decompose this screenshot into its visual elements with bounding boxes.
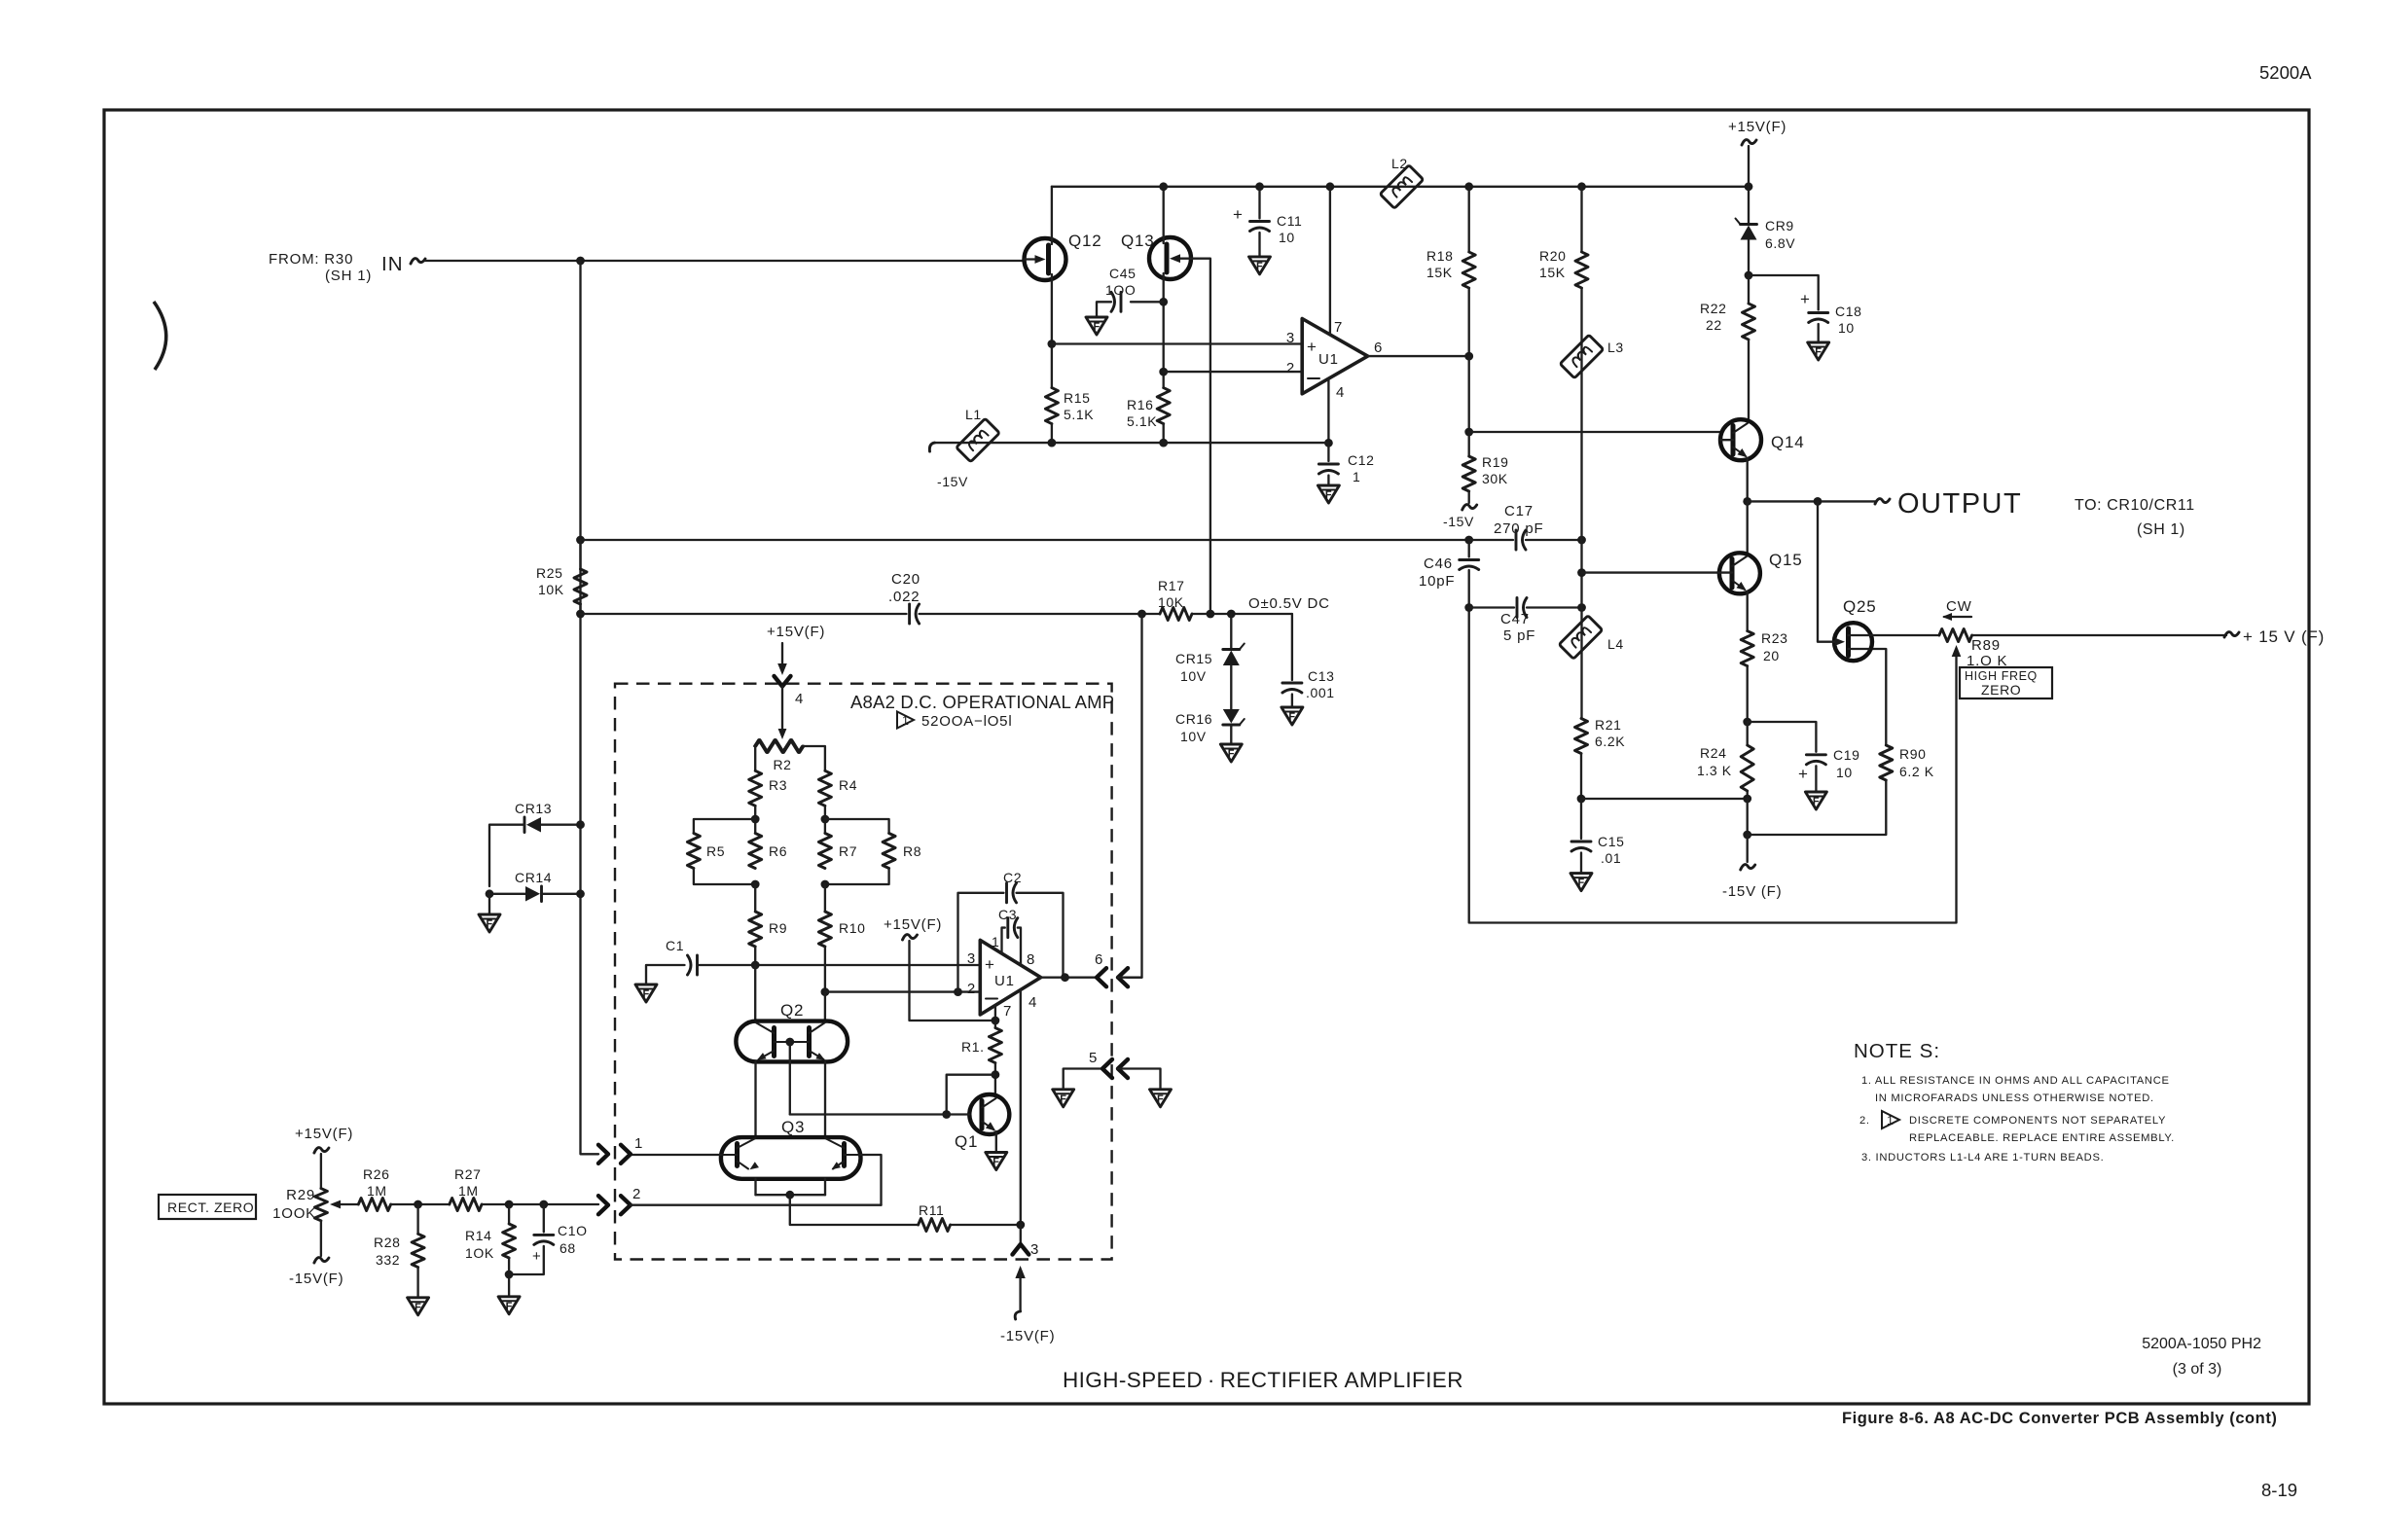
diode CR13 [489, 801, 585, 886]
wire Q3 emitters join [754, 1179, 756, 1195]
resistor R7 [818, 834, 831, 869]
svg-text:.01: .01 [1601, 850, 1621, 866]
svg-text:REPLACEABLE. REPLACE ENTIRE: REPLACEABLE. REPLACE ENTIRE ASSEMBLY. [1909, 1132, 2175, 1144]
svg-text:+: + [985, 955, 995, 974]
diode CR9 6.8V zener [1736, 187, 1796, 275]
node C1/R9 junction [751, 961, 760, 970]
wire C20 line [581, 613, 907, 615]
svg-text:(3 of 3): (3 of 3) [2173, 1361, 2222, 1378]
svg-text:-15V (F): -15V (F) [1722, 883, 1782, 900]
svg-text:-15V: -15V [937, 474, 968, 489]
resistor R21 6.2K [1575, 719, 1588, 754]
wire U1 pin7 / R1 [994, 1006, 996, 1028]
svg-text:F: F [506, 1301, 513, 1312]
transistor Q3 (dual pair) [721, 1118, 861, 1179]
svg-text:CR9: CR9 [1765, 218, 1794, 233]
node R11/pin4 junction [1016, 1221, 1025, 1230]
svg-text:CW: CW [1946, 598, 1972, 615]
svg-text:270 pF: 270 pF [1494, 520, 1544, 537]
svg-text:R5: R5 [706, 843, 725, 859]
node R25 top junction [576, 536, 585, 545]
inductor L3 [1560, 335, 1604, 378]
wire L4 vertical [1580, 608, 1582, 719]
svg-text:R3: R3 [769, 777, 787, 793]
svg-text:L2: L2 [1391, 156, 1408, 171]
capacitor C3 [998, 907, 1021, 964]
wire pin6 feedback vertical [1127, 614, 1142, 978]
wire Q13 source down through R16 [1163, 273, 1165, 388]
capacitor C2 [958, 870, 1064, 992]
svg-text:HIGH FREQ: HIGH FREQ [1965, 669, 2038, 683]
wire Q1 base [790, 1113, 970, 1115]
svg-text:R17: R17 [1158, 578, 1184, 593]
svg-text:R7: R7 [839, 843, 857, 859]
node pin2 junction at R10 [821, 987, 830, 996]
svg-text:7: 7 [1334, 319, 1343, 336]
connector pin 2 fork + mate [598, 1196, 608, 1214]
svg-text:U1: U1 [1318, 351, 1339, 368]
svg-text:(SH 1): (SH 1) [2137, 521, 2185, 538]
node R21 bottom junction [1577, 795, 1586, 804]
node CR9/C18 junction [1745, 271, 1753, 280]
wire R21 bottom to -15V rail [1581, 798, 1748, 800]
svg-text:.001: .001 [1306, 685, 1335, 700]
svg-text:(SH 1): (SH 1) [325, 268, 372, 284]
svg-text:1OOK: 1OOK [272, 1205, 316, 1222]
svg-text:NOTE S:: NOTE S: [1854, 1040, 1940, 1062]
svg-text:5.1K: 5.1K [1064, 407, 1094, 422]
transistor Q1 [955, 1094, 1009, 1151]
svg-text:L3: L3 [1607, 340, 1624, 355]
wire to U1 pin 2 [1164, 371, 1303, 373]
connector pin 5 fork pair with grounds [1053, 1050, 1172, 1107]
wire to C13 [1291, 614, 1293, 680]
svg-text:1M: 1M [458, 1183, 479, 1199]
resistor R23 20 [1741, 631, 1753, 666]
wire U1 pin2 line [825, 990, 980, 992]
svg-text:Q13: Q13 [1121, 232, 1155, 250]
svg-text:6.2K: 6.2K [1595, 734, 1625, 749]
svg-text:5200A-1050 PH2: 5200A-1050 PH2 [2142, 1336, 2261, 1352]
svg-text:F: F [1288, 711, 1295, 723]
wire C46 bottom / feedback loop to R89 wiper [1469, 570, 1957, 923]
power -15V(F) under R24 [1747, 835, 1749, 862]
svg-text:C1: C1 [666, 938, 684, 953]
svg-text:5.1K: 5.1K [1127, 413, 1157, 429]
resistor R6 [749, 834, 762, 869]
svg-text:Q12: Q12 [1068, 232, 1102, 250]
svg-text:C18: C18 [1835, 304, 1861, 319]
svg-text:1: 1 [902, 714, 910, 728]
node R25 bottom junction [576, 610, 585, 619]
svg-text:F: F [1325, 489, 1332, 501]
op-amp U1 (lower) [967, 934, 1041, 1020]
node CR15 junction [1227, 610, 1236, 619]
svg-text:F: F [643, 988, 650, 1000]
connector pin 6 fork [1097, 968, 1106, 986]
svg-text:5: 5 [1089, 1050, 1098, 1066]
svg-text:332: 332 [376, 1252, 400, 1268]
wire Q2 bases to Q1 base line [789, 1042, 791, 1115]
svg-text:-15V: -15V [1443, 514, 1474, 529]
capacitor C19 10 [1748, 722, 1860, 809]
resistor R89 1.0K potentiometer [1872, 634, 1939, 636]
svg-text:R9: R9 [769, 920, 787, 936]
svg-text:F: F [415, 1302, 421, 1313]
svg-text:5200A: 5200A [2259, 62, 2312, 83]
node R4/R7/R8 junction [821, 815, 830, 824]
transistor Q15 [1718, 551, 1803, 593]
transistor Q12 (JFET) [1025, 232, 1102, 280]
svg-text:L4: L4 [1607, 636, 1624, 652]
svg-text:R28: R28 [374, 1235, 400, 1250]
svg-text:CR15: CR15 [1175, 651, 1212, 666]
svg-text:F: F [992, 1157, 999, 1168]
svg-text:4: 4 [1029, 994, 1037, 1011]
svg-text:U1: U1 [994, 973, 1015, 989]
node Q1 base junction [942, 1110, 951, 1119]
node R28 junction [414, 1200, 422, 1209]
svg-text:1: 1 [634, 1135, 643, 1152]
svg-text:2: 2 [1286, 360, 1295, 376]
svg-text:Figure 8-6. A8 AC-DC Converter: Figure 8-6. A8 AC-DC Converter PCB Assem… [1842, 1410, 2277, 1427]
svg-text:HIGH-SPEED · RECTIFIER AMPLIF: HIGH-SPEED · RECTIFIER AMPLIFIER [1063, 1368, 1463, 1392]
dashed box A8A2 assembly [615, 684, 1112, 1260]
stray paren mark [154, 302, 166, 370]
svg-text:R19: R19 [1482, 454, 1508, 470]
resistor R24 1.3K [1747, 722, 1749, 745]
node output junction [1464, 352, 1473, 361]
svg-text:6.2 K: 6.2 K [1899, 764, 1934, 779]
node R14 junction [505, 1200, 514, 1209]
wire U1 pin 7 to +15 rail [1329, 187, 1331, 335]
wire Q12 source down through R15 [1051, 274, 1053, 388]
svg-text:R10: R10 [839, 920, 865, 936]
svg-text:R2: R2 [773, 757, 791, 772]
node C45 junction [1159, 298, 1168, 306]
svg-text:6: 6 [1374, 340, 1383, 356]
wire to U1 pin 3 [1052, 342, 1302, 344]
transistor Q25 (FET) [1834, 597, 1877, 661]
svg-text:R29: R29 [286, 1187, 315, 1203]
node C47 left junction [1464, 603, 1473, 612]
resistor R5 parallel loop [694, 819, 755, 834]
resistor R17 10K [1160, 608, 1192, 621]
svg-text:C20: C20 [891, 571, 920, 588]
svg-text:C17: C17 [1504, 503, 1534, 519]
capacitor C45 100 [1086, 266, 1164, 335]
svg-text:6.8V: 6.8V [1765, 235, 1795, 251]
wire vertical rail below L2 dot [1464, 182, 1473, 191]
svg-text:10V: 10V [1180, 729, 1207, 744]
svg-text:C46: C46 [1424, 555, 1453, 572]
svg-text:TO: CR10/CR11: TO: CR10/CR11 [2075, 497, 2195, 514]
svg-text:10K: 10K [1158, 594, 1184, 610]
svg-text:52OOA−lO5l: 52OOA−lO5l [921, 713, 1012, 730]
node Q14 base junction [1464, 428, 1473, 437]
node R21 branch junction [1743, 795, 1751, 804]
resistor R22 22 [1748, 275, 1750, 304]
svg-text:3: 3 [1030, 1241, 1039, 1258]
resistor R90 6.2K [1880, 745, 1893, 780]
wire left vertical bus to pin 1 [581, 261, 599, 1154]
capacitor C47 5pF [1469, 606, 1514, 608]
svg-text:Q14: Q14 [1771, 433, 1805, 451]
connector pin 3 fork [1020, 1225, 1022, 1244]
svg-text:C15: C15 [1598, 834, 1624, 849]
inductor L2 [1380, 165, 1424, 209]
wiper arrow into R29 [339, 1203, 358, 1205]
svg-text:R15: R15 [1064, 390, 1090, 406]
svg-text:1M: 1M [367, 1183, 387, 1199]
svg-text:15K: 15K [1426, 265, 1453, 280]
svg-text:1. ALL RESISTANCE IN OHMS: 1. ALL RESISTANCE IN OHMS AND ALL CAPACI… [1861, 1075, 2170, 1087]
resistor R19 30K [1468, 432, 1470, 456]
node R1 bottom junction [992, 1070, 1000, 1079]
wire Q13 drain to +15 rail [1163, 187, 1165, 243]
wire Q3 right base via pin 2 riser [861, 1155, 882, 1205]
node Q15 base junction [1577, 568, 1586, 577]
transistor Q13 (JFET, mirrored) [1121, 232, 1191, 279]
transistor Q14 [1720, 419, 1805, 460]
wire input from R30 to Q12 gate [424, 260, 1025, 262]
svg-text:8: 8 [1027, 951, 1035, 968]
svg-text:3. INDUCTORS L1-L4 ARE 1-: 3. INDUCTORS L1-L4 ARE 1-TURN BEADS. [1861, 1152, 2104, 1164]
svg-text:+: + [532, 1248, 542, 1265]
wire to Q15 base [1582, 571, 1719, 573]
resistor R14 10K [508, 1204, 510, 1224]
wire U1 pin 4 down [1327, 378, 1329, 443]
resistor R20 15K [1575, 252, 1588, 288]
svg-text:C47: C47 [1500, 611, 1530, 627]
svg-text:10: 10 [1836, 765, 1853, 780]
svg-text:Q1: Q1 [955, 1132, 978, 1151]
svg-text:68: 68 [559, 1240, 576, 1256]
svg-text:-15V(F): -15V(F) [289, 1271, 343, 1287]
svg-text:R1.: R1. [961, 1039, 985, 1055]
svg-text:1: 1 [1353, 469, 1360, 484]
wire pin4 to R2 wiper [781, 687, 783, 732]
svg-text:CR16: CR16 [1175, 711, 1212, 727]
potentiometer R29 100K [272, 1126, 353, 1287]
diode CR14 [486, 870, 585, 902]
svg-text:7: 7 [1003, 1003, 1012, 1020]
wire R10 junction down to Q2 [824, 992, 826, 1021]
svg-text:+: + [1307, 338, 1317, 356]
svg-text:OUTPUT: OUTPUT [1897, 488, 2022, 519]
inductor L1 [956, 418, 1000, 462]
node rail junctions [1159, 182, 1168, 191]
node C17 left junction [1464, 536, 1473, 545]
svg-text:22: 22 [1706, 317, 1722, 333]
wire Q3 left base to pin 1 [631, 1154, 721, 1156]
wire Q1 emitter to ground [995, 1131, 997, 1153]
svg-text:C12: C12 [1348, 452, 1374, 468]
svg-text:F: F [1813, 796, 1820, 807]
svg-text:C45: C45 [1109, 266, 1136, 281]
svg-text:+15V(F): +15V(F) [1728, 119, 1786, 135]
svg-text:3: 3 [1286, 330, 1295, 346]
note-2 triangle symbol with 1 [897, 712, 914, 729]
svg-text:10K: 10K [538, 582, 564, 597]
wire Q13 gate feedback vertical [1191, 259, 1210, 615]
svg-text:F: F [1228, 748, 1235, 760]
svg-text:R25: R25 [536, 565, 562, 581]
wire emitters to R11 [790, 1195, 919, 1225]
svg-text:A8A2 D.C. OPERATIONAL AMP: A8A2 D.C. OPERATIONAL AMP [850, 692, 1114, 712]
svg-text:3: 3 [967, 950, 976, 967]
svg-text:2: 2 [967, 981, 976, 997]
resistor R28 332 [416, 1204, 418, 1234]
svg-text:+15V(F): +15V(F) [295, 1126, 353, 1142]
svg-text:F: F [1094, 321, 1101, 333]
wire U1 output to pin 6 fork [1041, 977, 1097, 979]
potentiometer R2 [755, 740, 803, 753]
svg-text:C1O: C1O [558, 1223, 588, 1238]
diode CR15 10V (zener) [1175, 614, 1245, 709]
svg-text:+ 15 V (F): + 15 V (F) [2243, 627, 2325, 646]
svg-text:10V: 10V [1180, 668, 1207, 684]
resistor R9 [749, 912, 762, 947]
ground below CR14 stub [488, 894, 490, 914]
svg-text:+: + [1233, 205, 1244, 224]
wire Q12 drain to +15 rail [1051, 187, 1053, 244]
node R3/R5/R6 junction [751, 815, 760, 824]
svg-text:F: F [1157, 1093, 1164, 1105]
svg-text:-15V(F): -15V(F) [1000, 1328, 1055, 1344]
wire R9 junction down to Q2 [754, 965, 756, 1021]
resistor R4 [818, 770, 831, 806]
svg-text:R23: R23 [1761, 630, 1787, 646]
node + input junction [1048, 340, 1057, 348]
svg-text:Q3: Q3 [781, 1118, 805, 1136]
svg-text:R90: R90 [1899, 746, 1926, 762]
svg-text:1: 1 [1887, 1114, 1895, 1128]
node OUTPUT junction [1743, 497, 1751, 506]
svg-text:6: 6 [1095, 951, 1103, 968]
svg-text:CR13: CR13 [515, 801, 552, 816]
wire output to label [1748, 500, 1876, 502]
svg-text:F: F [1060, 1093, 1066, 1105]
svg-text:R16: R16 [1127, 397, 1153, 412]
svg-text:1.3 K: 1.3 K [1697, 763, 1732, 778]
node R14/C10 bottom junction [505, 1271, 514, 1279]
svg-text:10: 10 [1838, 320, 1855, 336]
svg-text:+: + [1798, 765, 1809, 783]
svg-text:CR14: CR14 [515, 870, 552, 885]
wire Q25 gate vertical from output [1818, 501, 1834, 641]
svg-text:ZERO: ZERO [1981, 682, 2021, 698]
svg-text:C11: C11 [1277, 213, 1302, 229]
wire mid horizontal to C17 [581, 539, 1470, 541]
label RECT. ZERO box [159, 1195, 256, 1219]
node R6 bottom junction [751, 880, 760, 889]
label HIGH FREQ ZERO box [1960, 667, 2052, 698]
inductor L4 [1559, 616, 1603, 660]
svg-text:F: F [1815, 346, 1822, 358]
svg-text:R26: R26 [363, 1166, 389, 1182]
transistor Q2 (dual pair) [736, 1001, 848, 1063]
wire Q15 emitter to R23 [1747, 591, 1749, 631]
svg-text:+: + [1800, 290, 1811, 308]
svg-text:1: 1 [992, 934, 999, 949]
svg-text:F: F [487, 918, 493, 930]
wire pin 4 vertical (to -15V(F)) [1020, 990, 1022, 1226]
svg-text:2: 2 [632, 1186, 641, 1202]
resistor R27 1M [450, 1199, 482, 1211]
resistor R25 10K [579, 540, 581, 569]
node C19 junction [1743, 718, 1751, 727]
svg-text:10pF: 10pF [1419, 573, 1455, 590]
svg-text:20: 20 [1763, 648, 1780, 663]
svg-text:L1: L1 [965, 407, 982, 422]
capacitor C18 10 [1749, 275, 1861, 360]
svg-text:R22: R22 [1700, 301, 1726, 316]
node - input junction [1159, 368, 1168, 376]
resistor R18 15K [1462, 252, 1475, 288]
node R90 branch junction [1743, 831, 1751, 840]
resistor R1 [989, 1028, 1001, 1063]
wire to Q14 base [1469, 431, 1720, 433]
connector pin 6 mate [1118, 968, 1128, 986]
svg-text:R8: R8 [903, 843, 921, 859]
svg-text:C19: C19 [1833, 747, 1859, 763]
wire Q2 emitters down to Q3 [754, 1061, 756, 1137]
svg-text:RECT. ZERO: RECT. ZERO [167, 1200, 254, 1215]
svg-text:Q2: Q2 [780, 1001, 804, 1020]
svg-text:F: F [1578, 877, 1585, 889]
node input junction [576, 257, 585, 266]
svg-text:R14: R14 [465, 1228, 491, 1243]
resistor R10 [818, 912, 831, 947]
resistor R26 1M [358, 1199, 390, 1211]
connector pin 4 fork [775, 676, 791, 687]
svg-text:4: 4 [1336, 384, 1345, 401]
wire pin 2 to Q3 riser [631, 1204, 882, 1206]
svg-text:.022: .022 [888, 589, 920, 605]
svg-text:C13: C13 [1308, 668, 1334, 684]
svg-text:R4: R4 [839, 777, 857, 793]
svg-text:R20: R20 [1539, 248, 1566, 264]
resistor R16 5.1K [1157, 388, 1170, 424]
capacitor C46 10pF [1468, 540, 1470, 557]
svg-text:R11: R11 [919, 1202, 944, 1218]
capacitor C13 .001 [1282, 682, 1302, 685]
svg-text:O±0.5V DC: O±0.5V DC [1248, 595, 1330, 612]
svg-text:4: 4 [795, 691, 804, 707]
wire -15V rail through R15/R16 bottoms [935, 442, 1329, 444]
resistor R8 parallel loop [825, 819, 889, 834]
svg-text:+15V(F): +15V(F) [884, 916, 942, 933]
node pin6 feedback junction [1137, 610, 1146, 619]
node Q13 gate junction [1207, 610, 1215, 619]
wire Q14 emitter to output node [1747, 458, 1749, 501]
border frame [104, 110, 2309, 1404]
svg-text:R18: R18 [1426, 248, 1453, 264]
svg-text:30K: 30K [1482, 471, 1508, 486]
wire U1 output pin 6 [1368, 355, 1469, 357]
wire +15V top rail [1052, 186, 1749, 188]
wire Q15 collector [1747, 501, 1749, 553]
svg-text:FROM: R30: FROM: R30 [269, 251, 353, 268]
svg-text:DISCRETE COMPONENTS NOT SEP: DISCRETE COMPONENTS NOT SEPARATELY [1909, 1115, 2166, 1127]
capacitor C12 1 [1317, 443, 1374, 503]
resistor R11 [919, 1219, 951, 1232]
resistor R15 5.1K [1045, 388, 1058, 424]
svg-text:R27: R27 [454, 1166, 481, 1182]
svg-text:+15V(F): +15V(F) [767, 624, 825, 640]
op-amp U1 (top) [1286, 319, 1383, 402]
